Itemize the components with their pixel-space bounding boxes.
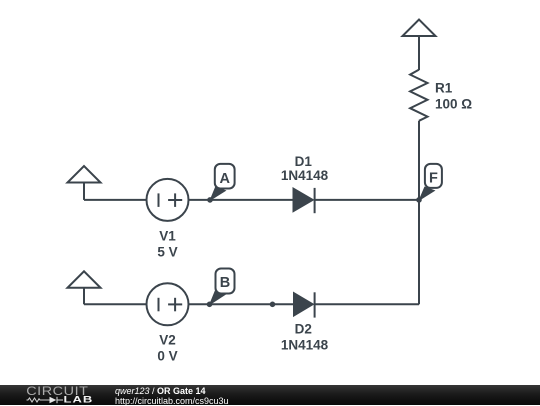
- wire node F down to row 2: [418, 200, 420, 304]
- svg-text:D1: D1: [295, 154, 313, 169]
- footer title text: [115, 387, 206, 396]
- wire power to V1: [84, 199, 147, 201]
- svg-text:A: A: [220, 171, 231, 187]
- svg-text:0 V: 0 V: [157, 348, 177, 363]
- wire D1 to node F: [315, 199, 419, 201]
- svg-text:1N4148: 1N4148: [281, 338, 329, 353]
- footer url text: [115, 397, 229, 406]
- voltage source V2: [147, 283, 189, 363]
- node B junction dot: [207, 302, 213, 308]
- node A flag: [209, 164, 234, 202]
- wire VCC stem to R1: [418, 36, 420, 70]
- svg-text:100 Ω: 100 Ω: [435, 97, 472, 112]
- diode D2: [281, 292, 329, 352]
- svg-text:LAB: LAB: [64, 395, 94, 405]
- junction dot mid row 2: [270, 302, 276, 308]
- wire V1 to D1: [189, 199, 294, 201]
- CircuitLab logo: [0, 385, 100, 405]
- svg-text:1N4148: 1N4148: [281, 168, 329, 183]
- svg-text:V2: V2: [159, 332, 176, 347]
- svg-text:D2: D2: [295, 322, 312, 337]
- voltage source V1: [147, 179, 189, 259]
- node B flag: [209, 269, 235, 306]
- svg-text:5 V: 5 V: [157, 244, 177, 259]
- svg-text:B: B: [220, 275, 230, 291]
- wire R1 bottom to node F: [418, 121, 420, 200]
- node A junction dot: [207, 197, 213, 203]
- resistor R1: [410, 70, 472, 121]
- power symbol at V2: [68, 271, 101, 304]
- svg-text:R1: R1: [435, 81, 453, 96]
- svg-text:V1: V1: [159, 228, 176, 243]
- power symbol at V1: [68, 166, 101, 200]
- wire V2 to D2: [189, 303, 295, 305]
- diode D1: [281, 154, 329, 213]
- node F junction dot: [416, 197, 422, 203]
- svg-text:F: F: [429, 171, 438, 187]
- wire power to V2: [84, 303, 147, 305]
- power symbol VCC top: [403, 20, 436, 37]
- wire D2 to right riser: [315, 303, 419, 305]
- node F flag: [418, 164, 442, 202]
